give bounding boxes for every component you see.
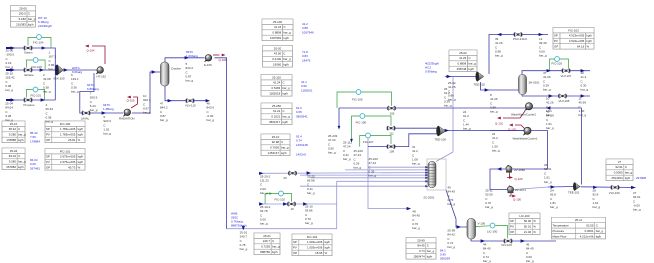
svg-text:Q-100: Q-100 <box>513 198 521 202</box>
svg-text:FIC-103: FIC-103 <box>552 62 563 66</box>
svg-text:4.523e+005: 4.523e+005 <box>569 34 585 38</box>
svg-text:kg/h: kg/h <box>596 234 602 238</box>
svg-text:84.04: 84.04 <box>9 154 17 158</box>
energy stream Q-103 <box>507 173 510 178</box>
table 25-110 <box>261 75 292 97</box>
svg-text:Cracker: Cracker <box>171 67 181 71</box>
wire 2P-2680 suction <box>490 169 507 190</box>
svg-text:25-0241.26C0.88bar_g: 25-0241.26C0.88bar_g <box>448 81 456 102</box>
svg-text:FIC-107: FIC-107 <box>363 140 374 144</box>
svg-text:C: C <box>468 56 470 60</box>
wire FIC-103 control loop <box>550 59 555 70</box>
svg-text:19060: 19060 <box>273 63 281 67</box>
svg-text:71.80.8318479: 71.80.8318479 <box>302 50 311 62</box>
svg-text:OP: OP <box>554 45 558 49</box>
svg-text:1.003e+006: 1.003e+006 <box>307 246 323 250</box>
svg-text:Q-102: Q-102 <box>508 128 516 132</box>
wire FIC-107 control loop <box>360 136 366 147</box>
wire FIC-107 valve branch <box>368 146 389 148</box>
svg-text:kg/h: kg/h <box>427 255 433 259</box>
svg-text:bar_g: bar_g <box>282 115 290 119</box>
svg-text:%: % <box>533 230 536 234</box>
svg-text:kg/h: kg/h <box>18 138 24 142</box>
svg-text:45.73: 45.73 <box>68 166 76 170</box>
svg-text:25-0484.04C9.28bar_g: 25-0484.04C9.28bar_g <box>5 102 13 123</box>
tee TEE-100 <box>436 126 445 136</box>
tee SE-101 <box>573 183 580 191</box>
svg-text:178888: 178888 <box>6 138 16 142</box>
svg-text:SP: SP <box>510 219 514 223</box>
table FIC-102 <box>292 234 332 256</box>
svg-text:Steam: Steam <box>24 51 33 55</box>
svg-text:92.98: 92.98 <box>272 140 280 144</box>
svg-text:1560474: 1560474 <box>413 255 425 259</box>
svg-text:bar_g: bar_g <box>28 17 36 21</box>
svg-text:841.26C0.88bar_g: 841.26C0.88bar_g <box>490 93 498 114</box>
wire 25-20 feed to column <box>330 172 427 174</box>
wire stream 33 feed to column <box>300 185 427 187</box>
svg-text:21.46: 21.46 <box>524 230 532 234</box>
svg-text:V-100: V-100 <box>478 222 486 226</box>
wire TEE-101 outlet through VLV-106 <box>581 186 636 189</box>
svg-text:2892.8C1.61bar_g: 2892.8C1.61bar_g <box>593 189 601 210</box>
svg-text:0.0061: 0.0061 <box>585 229 594 233</box>
svg-text:kg/h: kg/h <box>283 63 289 67</box>
svg-text:84.049.09267481: 84.049.09267481 <box>30 158 40 170</box>
svg-text:%: % <box>325 251 328 255</box>
svg-text:216383: 216383 <box>16 23 26 27</box>
energy stream Q-105 <box>131 97 138 108</box>
wire FIC-106 valve branch <box>393 127 439 129</box>
svg-text:C: C <box>625 165 627 169</box>
svg-text:0.7036: 0.7036 <box>270 146 279 150</box>
energy stream Q-106 <box>213 54 220 56</box>
svg-text:3141.2C1.08bar_g: 3141.2C1.08bar_g <box>412 145 420 166</box>
heater E-105 <box>204 55 212 63</box>
svg-text:LIC-100: LIC-100 <box>487 230 498 234</box>
valve steam inlet <box>24 46 33 51</box>
table 25-04 <box>2 148 26 170</box>
valve LAVAL <box>82 111 91 116</box>
svg-text:Q-106: Q-106 <box>219 58 227 62</box>
svg-text:kg/h: kg/h <box>78 127 84 131</box>
svg-text:Pressure: Pressure <box>553 229 565 233</box>
table 25-20 <box>263 46 293 68</box>
svg-text:26.81: 26.81 <box>68 138 76 142</box>
svg-text:WashWaterCooler1: WashWaterCooler1 <box>513 136 538 140</box>
svg-text:83TC1.09barg: 83TC1.09barg <box>186 50 198 58</box>
svg-text:92.40.741453148: 92.40.741453148 <box>296 135 308 147</box>
svg-text:61.00.053800941: 61.00.053800941 <box>296 106 308 118</box>
svg-text:C: C <box>283 52 285 56</box>
svg-text:kg/h: kg/h <box>586 39 592 43</box>
valve VLV-110 <box>186 98 195 103</box>
svg-text:243.08C0.38bar_g: 243.08C0.38bar_g <box>43 73 51 94</box>
svg-text:%: % <box>78 166 81 170</box>
svg-text:297908: 297908 <box>636 176 646 180</box>
svg-text:2.675e+005: 2.675e+005 <box>60 155 76 159</box>
valve VLV-108 <box>504 239 513 244</box>
svg-text:65.42: 65.42 <box>9 127 17 131</box>
wire LIC-100 control loop <box>476 225 490 228</box>
svg-text:25-1192.59C0.70bar_g: 25-1192.59C0.70bar_g <box>485 189 493 210</box>
svg-text:PV: PV <box>510 225 514 229</box>
wire header down to SE-101 <box>581 108 583 185</box>
svg-text:460.49C0.38bar_g: 460.49C0.38bar_g <box>46 103 54 124</box>
svg-text:bar_g: bar_g <box>283 31 291 35</box>
svg-text:SP: SP <box>46 127 50 131</box>
svg-text:2P-2680: 2P-2680 <box>514 168 525 172</box>
svg-text:C: C <box>283 25 285 29</box>
heater HT-162 <box>96 67 104 75</box>
wire WashWaterCooler1 outlet to 2P-2680 <box>513 131 548 170</box>
svg-text:Q-104: Q-104 <box>87 49 95 53</box>
svg-text:kg/h: kg/h <box>325 246 331 250</box>
svg-text:5844.2C0.87bar_g: 5844.2C0.87bar_g <box>186 62 194 83</box>
svg-text:84.10.99556299: 84.10.99556299 <box>440 249 450 261</box>
svg-text:PV: PV <box>46 160 50 164</box>
svg-text:0.1621: 0.1621 <box>271 115 280 119</box>
svg-text:%: % <box>586 45 589 49</box>
wire Cracker bottoms through VLV-110 <box>165 86 208 101</box>
svg-text:%: % <box>78 138 81 142</box>
svg-text:HT-162: HT-162 <box>97 75 107 79</box>
svg-text:4484.45C0.74bar_g: 4484.45C0.74bar_g <box>483 243 491 263</box>
svg-text:25-20: 25-20 <box>274 46 282 50</box>
svg-text:kg/h: kg/h <box>78 155 84 159</box>
svg-text:bar_g: bar_g <box>281 146 289 150</box>
svg-text:25-10165.42C6.08bar_g: 25-10165.42C6.08bar_g <box>5 72 15 93</box>
wire ethane inlet <box>6 69 58 71</box>
svg-text:94TC6.89barg: 94TC6.89barg <box>87 83 99 91</box>
svg-text:FIC-102: FIC-102 <box>275 197 286 201</box>
svg-text:FIC-101: FIC-101 <box>60 149 71 153</box>
svg-text:LAVAL: LAVAL <box>81 117 90 121</box>
wire stream 25-20-2 <box>261 172 330 174</box>
svg-text:bar_g: bar_g <box>18 160 26 164</box>
svg-text:C: C <box>18 154 20 158</box>
wire 25-109 feed to column <box>345 169 427 171</box>
wire 3H-0101 overhead through VLV-107 <box>522 71 563 74</box>
wire column bottoms to V-100 <box>446 190 467 227</box>
wire FIC-102 control loop <box>265 194 279 205</box>
svg-text:kg/h: kg/h <box>282 92 288 96</box>
wire column overhead riser <box>436 152 453 162</box>
table 25-100 <box>262 19 293 41</box>
table 25-11 <box>552 217 606 239</box>
svg-text:kg/h: kg/h <box>18 165 24 169</box>
valve VLV-104 <box>611 185 620 190</box>
svg-text:3H-0101: 3H-0101 <box>529 81 540 85</box>
svg-text:2.675e+005: 2.675e+005 <box>60 160 76 164</box>
wire feed 5 to column <box>310 177 427 179</box>
svg-text:FIC-103: FIC-103 <box>568 28 579 32</box>
wire stream 48 spur <box>368 138 409 209</box>
svg-text:25-250: 25-250 <box>272 104 281 108</box>
svg-text:kg/h: kg/h <box>282 120 288 124</box>
svg-text:41.24: 41.24 <box>273 81 281 85</box>
svg-text:0.0000: 0.0000 <box>614 171 623 175</box>
mixer MIX-100 <box>55 65 63 76</box>
controller FIC-103 <box>555 57 560 62</box>
valve 109 <box>387 144 396 149</box>
svg-text:Q-105: Q-105 <box>127 99 135 103</box>
pump 2P-2671 <box>507 186 514 194</box>
wire stream 25-10-2 <box>261 203 337 205</box>
svg-text:kg/h: kg/h <box>272 250 278 254</box>
svg-text:2491.2C1.44bar_g: 2491.2C1.44bar_g <box>463 110 471 131</box>
svg-text:C: C <box>281 140 283 144</box>
svg-text:61.22: 61.22 <box>273 109 281 113</box>
wire Cracker overhead to E-105 and down to 25-01 <box>165 58 205 63</box>
svg-text:VLV-110: VLV-110 <box>185 104 196 108</box>
svg-text:25-100: 25-100 <box>273 20 282 24</box>
wire pump 2P-2671 discharge <box>514 187 548 190</box>
valve 16 <box>287 202 296 207</box>
svg-text:3041.2C0.30bar_g: 3041.2C0.30bar_g <box>581 71 589 92</box>
svg-text:FIC-104: FIC-104 <box>33 41 44 45</box>
table FIC-101 <box>45 149 85 171</box>
svg-text:kg/h: kg/h <box>78 133 84 137</box>
svg-text:FIC-106: FIC-106 <box>356 121 367 125</box>
wire 3H-0101 bottoms through VLV-105 <box>522 95 560 96</box>
svg-text:C: C <box>596 224 598 228</box>
table 25-00 <box>11 6 36 28</box>
svg-text:41.10.501182001: 41.10.501182001 <box>301 80 313 92</box>
valve ethane inlet <box>24 68 33 73</box>
svg-text:H6TC6.6barg: H6TC6.6barg <box>72 66 83 74</box>
svg-text:25-10947.24C0.29bar_g: 25-10947.24C0.29bar_g <box>354 149 364 170</box>
svg-text:2692.91C1.61bar_g: 2692.91C1.61bar_g <box>544 163 552 184</box>
svg-text:111: 111 <box>389 132 394 136</box>
valve VLV-105 <box>558 94 567 99</box>
wire HT-162 to LAVAL to RADIATION to Cracker <box>80 73 123 113</box>
svg-text:9920.3C1.02bar_g: 9920.3C1.02bar_g <box>103 115 111 136</box>
svg-text:kg/h: kg/h <box>625 176 631 180</box>
svg-text:PV: PV <box>554 39 558 43</box>
controller FIC-100 <box>33 58 38 63</box>
stream arrows <box>6 47 12 49</box>
svg-text:6.180: 6.180 <box>19 17 27 21</box>
svg-text:92.91: 92.91 <box>615 165 623 169</box>
svg-text:Propane: Propane <box>24 103 35 107</box>
svg-text:25-04: 25-04 <box>10 149 18 153</box>
svg-text:3801317: 3801317 <box>269 120 281 124</box>
valve propane inlet <box>24 98 33 103</box>
svg-text:%: % <box>533 225 536 229</box>
wire TEE-102 to PSV-210-K <box>489 35 548 75</box>
valve 105 <box>387 106 396 111</box>
svg-text:27: 27 <box>618 160 622 164</box>
valve 20 <box>288 171 297 176</box>
svg-text:Q-103: Q-103 <box>515 177 523 181</box>
svg-text:%: % <box>533 219 536 223</box>
svg-text:41.26: 41.26 <box>459 56 467 60</box>
table 25-02 <box>449 50 477 72</box>
svg-text:9.280: 9.280 <box>9 160 17 164</box>
svg-text:0.5183: 0.5183 <box>271 86 280 90</box>
wire FIC-101 control loop <box>26 90 32 98</box>
svg-text:25-2069.98C0.41bar_g: 25-2069.98C0.41bar_g <box>307 174 315 195</box>
svg-text:0.7255: 0.7255 <box>261 245 270 249</box>
svg-text:7920.9C5.43bar_g: 7920.9C5.43bar_g <box>90 92 98 113</box>
svg-text:0.8808: 0.8808 <box>272 31 281 35</box>
svg-text:C: C <box>272 239 274 243</box>
controller FIC-101 <box>33 87 38 92</box>
svg-text:FIC-100: FIC-100 <box>60 122 71 126</box>
svg-text:OP: OP <box>46 138 50 142</box>
controller FIC-105 <box>356 90 361 95</box>
svg-text:25-1093.86C0.70bar_g: 25-1093.86C0.70bar_g <box>305 205 313 226</box>
svg-text:Q-101: Q-101 <box>495 122 503 126</box>
valve PSV-210-K <box>514 32 523 37</box>
svg-text:E-105: E-105 <box>204 63 212 67</box>
vessel Cracker <box>161 62 170 86</box>
svg-text:bar_g: bar_g <box>18 133 26 137</box>
svg-text:267882: 267882 <box>6 165 16 169</box>
svg-text:18.95: 18.95 <box>315 251 323 255</box>
svg-text:84.45: 84.45 <box>417 244 425 248</box>
svg-text:1453147: 1453147 <box>268 151 280 155</box>
table 27 <box>606 159 633 181</box>
svg-text:SP: SP <box>554 34 558 38</box>
svg-text:TEE-102: TEE-102 <box>474 83 486 87</box>
svg-text:MIX-100: MIX-100 <box>54 77 65 81</box>
svg-text:FIC-102: FIC-102 <box>307 235 318 239</box>
svg-text:25-01: 25-01 <box>263 234 271 238</box>
wire vertical to 25-01 tail <box>336 181 338 228</box>
wire 25-111 feed to column <box>368 166 427 168</box>
svg-text:OP: OP <box>46 166 50 170</box>
svg-text:bar_g: bar_g <box>272 245 280 249</box>
wire FIC-106 control loop <box>352 116 361 140</box>
wire mixer outlet to HT-162 <box>64 69 98 71</box>
svg-text:48843.6C-0.00bar_g: 48843.6C-0.00bar_g <box>207 102 215 123</box>
wire stream B tail to 25-01 <box>227 228 337 230</box>
svg-text:OP: OP <box>293 251 297 255</box>
svg-text:bar_g: bar_g <box>625 171 633 175</box>
wire 25-233 riser <box>338 108 340 127</box>
svg-text:43.56: 43.56 <box>274 52 282 56</box>
svg-text:Ethane: Ethane <box>25 73 35 77</box>
svg-text:4884.45C0.76bar_g: 4884.45C0.76bar_g <box>412 210 420 231</box>
svg-text:25-10: 25-10 <box>272 135 280 139</box>
svg-text:bar_g: bar_g <box>468 62 476 66</box>
wire propane inlet <box>6 99 55 101</box>
svg-text:WashWaterCooler2: WashWaterCooler2 <box>511 112 536 116</box>
svg-text:2441.2C1.50bar_g: 2441.2C1.50bar_g <box>492 132 500 153</box>
svg-text:1.783e+005: 1.783e+005 <box>60 133 76 137</box>
svg-text:94TC1.2Barg: 94TC1.2Barg <box>103 103 114 111</box>
svg-text:bar_g: bar_g <box>427 249 435 253</box>
svg-text:VLV-105: VLV-105 <box>559 99 570 103</box>
svg-text:41.20.881007946: 41.20.881007946 <box>302 22 314 34</box>
cooler WashWaterCooler2 <box>524 103 532 111</box>
vessel 3H-0101 <box>519 75 527 95</box>
svg-text:25-110: 25-110 <box>272 75 281 79</box>
svg-text:kg/h: kg/h <box>468 67 474 71</box>
pump 2P-2680 <box>506 165 513 173</box>
svg-text:FIC-101: FIC-101 <box>31 94 42 98</box>
svg-text:1.783e+005: 1.783e+005 <box>60 127 76 131</box>
svg-text:kg/h: kg/h <box>28 23 34 27</box>
svg-text:3941.26C0.58bar_g: 3941.26C0.58bar_g <box>495 37 503 58</box>
svg-text:2P-2671: 2P-2671 <box>515 188 526 192</box>
svg-text:VLV-105: VLV-105 <box>501 243 512 247</box>
svg-text:1453+6: 1453+6 <box>296 153 306 157</box>
svg-text:bar_g: bar_g <box>282 86 290 90</box>
svg-text:4.212e+06: 4.212e+06 <box>580 234 594 238</box>
controller FIC-106 <box>360 114 365 119</box>
column 2C-2001 <box>427 159 446 190</box>
svg-text:PV: PV <box>46 133 50 137</box>
tee TEE-102 <box>476 72 484 82</box>
svg-text:25-11: 25-11 <box>575 218 583 222</box>
svg-text:25-01240.7C0.78bar_g: 25-01240.7C0.78bar_g <box>240 231 248 252</box>
wire feed 4 to column <box>300 174 427 176</box>
table 25-10 duplicate <box>261 134 290 156</box>
svg-text:25-9984.42C0.74bar_g: 25-9984.42C0.74bar_g <box>447 229 455 250</box>
svg-text:1140.99C1.00bar_g: 1140.99C1.00bar_g <box>579 97 587 118</box>
controller FIC-102 <box>279 191 284 196</box>
svg-text:41.24: 41.24 <box>274 25 282 29</box>
energy stream Q-100 <box>509 193 511 196</box>
svg-text:1182018: 1182018 <box>269 92 280 96</box>
svg-text:kg/h: kg/h <box>281 151 287 155</box>
svg-text:OP: OP <box>510 230 514 234</box>
energy stream Q-101 <box>503 111 525 118</box>
svg-text:1239.49C0.00bar_g: 1239.49C0.00bar_g <box>539 37 547 58</box>
wire FIC-105 control loop <box>337 92 356 108</box>
energy stream Q-104 <box>92 46 105 64</box>
table 25-10 <box>2 121 26 143</box>
svg-text:50.01: 50.01 <box>524 225 532 229</box>
svg-text:4584.45C0.00bar_g: 4584.45C0.00bar_g <box>526 243 534 263</box>
table 25-01 <box>254 233 280 255</box>
svg-text:kg/h: kg/h <box>325 240 331 244</box>
wire V-100 bottoms through VLV-108 <box>471 239 504 241</box>
svg-text:WT 106.1Barg21630kg/h: WT 106.1Barg21630kg/h <box>38 16 52 28</box>
svg-text:0.4100: 0.4100 <box>272 57 281 61</box>
svg-text:C: C <box>282 81 284 85</box>
svg-text:Mass Flow: Mass Flow <box>553 234 568 238</box>
wire stream 24 into cooler <box>490 130 524 132</box>
svg-text:VLV-106: VLV-106 <box>609 191 620 195</box>
svg-text:25-02: 25-02 <box>459 51 467 55</box>
wire FIC-104 control loop <box>28 38 36 46</box>
svg-text:20: 20 <box>284 176 288 180</box>
energy stream Q-102 <box>515 125 525 129</box>
svg-text:C: C <box>28 12 30 16</box>
wire main header L1 <box>339 107 582 109</box>
cooler WashWaterCooler1 <box>523 127 531 135</box>
svg-text:1.003e+006: 1.003e+006 <box>307 240 323 244</box>
svg-text:25-10: 25-10 <box>10 122 18 126</box>
svg-text:240.7: 240.7 <box>263 239 271 243</box>
svg-text:25-10-293.78C5.00bar_g: 25-10-293.78C5.00bar_g <box>260 205 271 226</box>
svg-text:92.59: 92.59 <box>586 224 594 228</box>
controller LIC-100 <box>490 223 495 228</box>
svg-text:64.16: 64.16 <box>577 45 585 49</box>
svg-text:16: 16 <box>291 207 295 211</box>
svg-text:4741.26C0.39bar_g: 4741.26C0.39bar_g <box>543 71 551 92</box>
svg-text:TEE-100: TEE-100 <box>435 137 447 141</box>
svg-text:VLV-107: VLV-107 <box>561 74 572 78</box>
svg-text:109: 109 <box>389 150 394 154</box>
svg-text:47844.2C0.87bar_g: 47844.2C0.87bar_g <box>160 102 168 123</box>
svg-text:FIC-100: FIC-100 <box>31 65 42 69</box>
svg-text:25-20-2111.23C2.00bar_g: 25-20-2111.23C2.00bar_g <box>260 174 271 195</box>
